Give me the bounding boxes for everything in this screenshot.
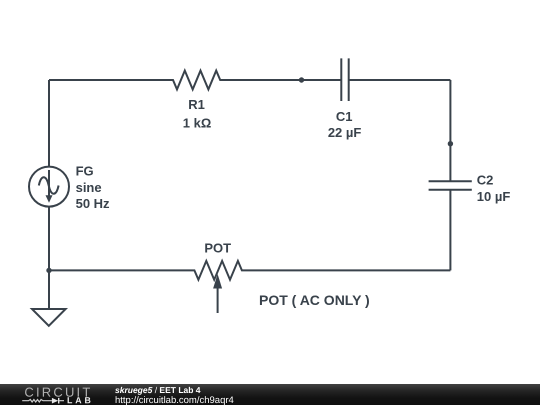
svg-text:10 µF: 10 µF — [477, 189, 511, 204]
svg-text:FG: FG — [76, 164, 94, 179]
svg-text:22 µF: 22 µF — [328, 125, 362, 140]
svg-text:POT: POT — [204, 240, 231, 255]
svg-text:1 kΩ: 1 kΩ — [183, 116, 212, 131]
svg-text:LAB: LAB — [67, 395, 94, 405]
svg-text:sine: sine — [76, 180, 102, 195]
svg-text:R1: R1 — [188, 97, 205, 112]
svg-text:C2: C2 — [477, 173, 494, 188]
svg-text:50 Hz: 50 Hz — [76, 196, 110, 211]
svg-text:POT ( AC ONLY ): POT ( AC ONLY ) — [259, 292, 370, 308]
svg-text:C1: C1 — [336, 109, 353, 124]
